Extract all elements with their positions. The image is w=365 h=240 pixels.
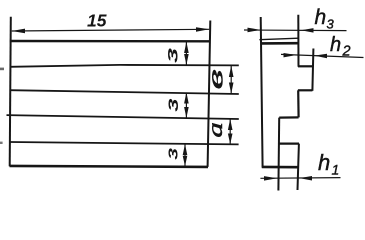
wire: step bottom horizontal — [298, 89, 313, 91]
wire: groove line L2 — [10, 90, 239, 94]
dimension а — [228, 119, 233, 144]
scan speck left edge upper — [0, 68, 4, 71]
wire: side left edge + extension above — [261, 17, 263, 168]
dimension 3 (middle strip) — [184, 92, 189, 118]
svg-text:3: 3 — [166, 98, 181, 112]
wire: side right mid vertical — [297, 90, 300, 117]
wire: side right lower vertical + h1 extension below — [298, 144, 299, 190]
wire: groove line L1 — [10, 65, 120, 67]
wire: notch left vertical + h1 extension below — [277, 118, 280, 191]
wire: step outer vertical + h2 extension above — [312, 49, 313, 91]
wire: plate left edge + extension above — [10, 17, 11, 166]
dimension 3 (bottom strip) — [183, 144, 188, 166]
svg-text:h: h — [315, 6, 327, 29]
svg-text:h: h — [318, 150, 330, 175]
svg-text:а: а — [203, 122, 227, 138]
svg-text:3: 3 — [166, 147, 181, 160]
svg-text:15: 15 — [87, 11, 107, 31]
wire: step top horizontal — [298, 65, 313, 67]
svg-text:2: 2 — [342, 43, 351, 59]
front view plate outline — [7, 17, 239, 167]
dimension 3 (top strip) — [184, 42, 189, 65]
svg-text:в: в — [203, 69, 228, 90]
wire: side right upper vertical + extension above — [297, 15, 299, 67]
scan speck left edge lower — [0, 142, 3, 144]
side view profile — [259, 15, 313, 191]
wire: side thick top edge — [262, 42, 298, 45]
svg-text:3: 3 — [327, 17, 335, 32]
wire: plate bottom edge — [10, 166, 209, 167]
wire: plate top edge — [10, 40, 210, 43]
wire: side thin top line — [259, 38, 298, 40]
dimension h2 — [281, 53, 364, 58]
wire: groove line L3 — [7, 115, 239, 119]
dimension h1 — [260, 176, 340, 181]
wire: side bottom edge — [262, 166, 298, 169]
wire: notch top horizontal — [279, 116, 298, 118]
dimension в — [229, 65, 234, 93]
svg-text:3: 3 — [166, 47, 181, 63]
dimension 15 — [12, 27, 210, 33]
dimension h3 — [244, 28, 347, 33]
svg-text:1: 1 — [332, 162, 340, 178]
wire: notch bottom horizontal — [279, 143, 299, 145]
wire: plate right edge + extension above — [208, 21, 211, 167]
wire: groove line L4 — [10, 142, 239, 144]
svg-text:h: h — [330, 34, 341, 56]
